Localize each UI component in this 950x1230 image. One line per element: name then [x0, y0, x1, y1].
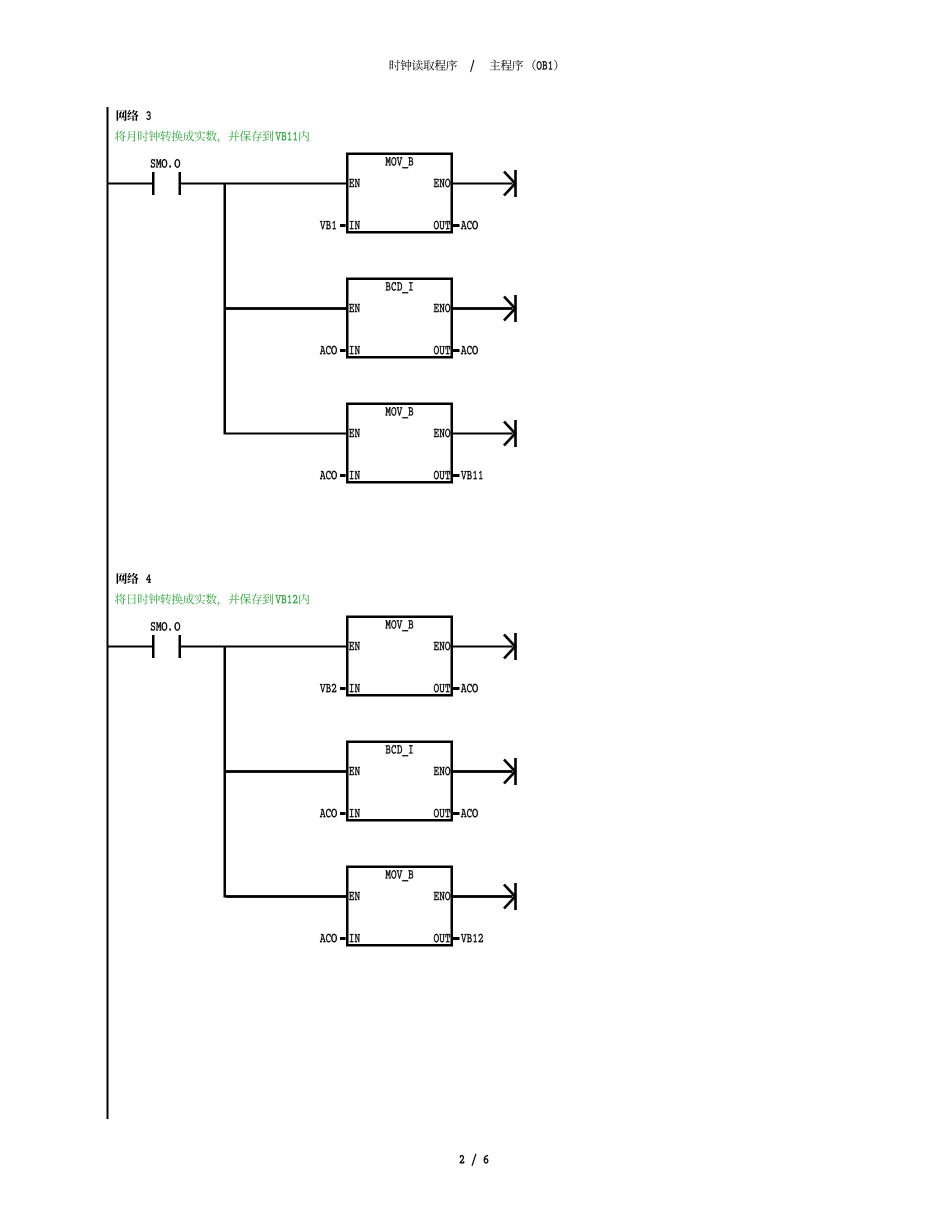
wire: branch to block EN (network 3 rung 2) — [226, 307, 346, 310]
wire: contact to block EN (network 3 rung 1) — [181, 183, 346, 185]
output wire with arrow (network 3 rung 1) — [453, 170, 517, 197]
operand AC0 (IN of BCD_I network 3 rung 2) — [320, 346, 337, 355]
function block MOV_B (network 4 rung 1) — [340, 617, 460, 696]
output wire with arrow (network 4 rung 2) — [453, 758, 517, 785]
wire: branch to block EN (network 3 rung 3) — [226, 433, 346, 435]
function block BCD_I (network 3 rung 2) — [340, 279, 460, 358]
function block MOV_B (network 3 rung 3) — [340, 404, 460, 483]
wire: left rail to contact (network 3) — [109, 183, 153, 185]
operand AC0 (IN of MOV_B network 4 rung 3) — [320, 934, 337, 943]
network 4 label — [117, 573, 139, 584]
operand AC0 (OUT of MOV_B network 3 rung 1) — [461, 221, 478, 230]
output wire with arrow (network 4 rung 1) — [453, 633, 517, 660]
function block BCD_I (network 4 rung 2) — [340, 742, 460, 821]
operand VB12 (OUT of MOV_B network 4 rung 3) — [461, 934, 483, 943]
page number footer — [460, 1154, 489, 1166]
operand AC0 (IN of BCD_I network 4 rung 2) — [320, 809, 337, 818]
operand AC0 (OUT of MOV_B network 4 rung 1) — [461, 684, 478, 693]
output wire with arrow (network 3 rung 2) — [453, 295, 517, 322]
contact SM0.0 (network 3) — [151, 159, 181, 195]
operand VB11 (OUT of MOV_B network 3 rung 3) — [461, 471, 483, 480]
wire: contact to block EN (network 4 rung 1) — [181, 646, 346, 648]
contact SM0.0 (network 4) — [151, 622, 181, 658]
page header title — [390, 60, 457, 71]
operand AC0 (IN of MOV_B network 3 rung 3) — [320, 471, 337, 480]
operand VB1 (IN of MOV_B network 3 rung 1) — [320, 221, 336, 230]
operand VB2 (IN of MOV_B network 4 rung 1) — [320, 684, 336, 693]
wire: branch to block EN (network 4 rung 3) — [226, 895, 346, 898]
branch junction (network 3) — [224, 183, 227, 435]
operand AC0 (OUT of BCD_I network 3 rung 2) — [461, 346, 478, 355]
left power rail — [107, 107, 109, 1119]
operand AC0 (OUT of BCD_I network 4 rung 2) — [461, 809, 478, 818]
output wire with arrow (network 3 rung 3) — [453, 420, 517, 447]
wire: left rail to contact (network 4) — [109, 646, 153, 648]
function block MOV_B (network 3 rung 1) — [340, 154, 460, 233]
wire: branch to block EN (network 4 rung 2) — [226, 770, 346, 773]
network 3 comment — [115, 131, 309, 143]
network 3 label — [117, 110, 139, 121]
branch junction (network 4) — [224, 646, 227, 898]
network 4 comment — [115, 594, 309, 606]
output wire with arrow (network 4 rung 3) — [453, 883, 517, 910]
function block MOV_B (network 4 rung 3) — [340, 867, 460, 946]
